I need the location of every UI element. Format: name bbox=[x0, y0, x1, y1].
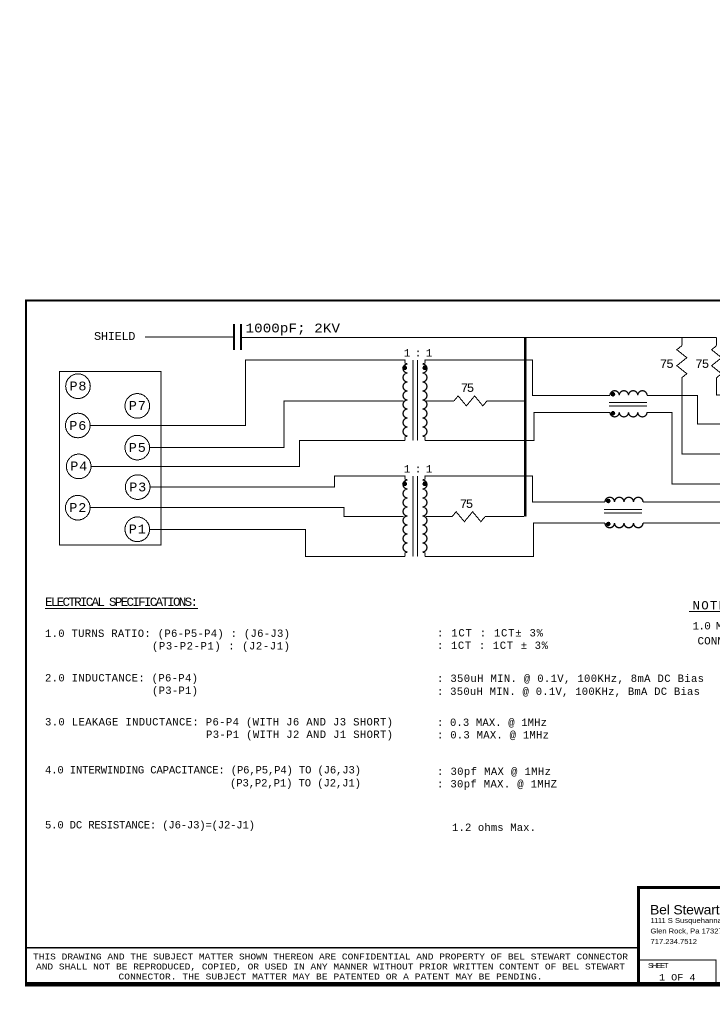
svg-text:1 : 1: 1 : 1 bbox=[404, 464, 433, 476]
svg-text:P3-P1 (WITH J2 AND J1 SHORT): P3-P1 (WITH J2 AND J1 SHORT) bbox=[206, 730, 393, 742]
svg-text:75: 75 bbox=[460, 498, 474, 512]
svg-text:SHEET: SHEET bbox=[648, 961, 669, 970]
svg-text:4.0 INTERWINDING CAPACITANCE:: 4.0 INTERWINDING CAPACITANCE: (P6,P5,P4)… bbox=[45, 766, 361, 778]
svg-text:717.234.7512: 717.234.7512 bbox=[651, 937, 697, 946]
svg-text:P8: P8 bbox=[70, 381, 87, 396]
svg-text:: 0.3 MAX. @ 1MHz: : 0.3 MAX. @ 1MHz bbox=[437, 731, 549, 743]
svg-text:3.0 LEAKAGE INDUCTANCE: P6-P4: 3.0 LEAKAGE INDUCTANCE: P6-P4 (WITH J6 A… bbox=[45, 718, 393, 730]
svg-text:1 OF 4: 1 OF 4 bbox=[659, 973, 696, 984]
svg-text:Bel Stewart Co: Bel Stewart Co bbox=[650, 902, 720, 918]
svg-text:: 1CT : 1CT ± 3%: : 1CT : 1CT ± 3% bbox=[437, 641, 549, 653]
svg-text:1.2 ohms Max.: 1.2 ohms Max. bbox=[452, 823, 536, 835]
svg-text:2.0 INDUCTANCE: (P6-P4): 2.0 INDUCTANCE: (P6-P4) bbox=[45, 674, 198, 686]
svg-text:: 1CT : 1CT± 3%: : 1CT : 1CT± 3% bbox=[437, 629, 544, 641]
svg-text:1 : 1: 1 : 1 bbox=[404, 348, 433, 360]
svg-text:1000pF; 2KV: 1000pF; 2KV bbox=[246, 322, 341, 338]
svg-text:P5: P5 bbox=[129, 442, 146, 457]
svg-text:P6: P6 bbox=[69, 420, 86, 435]
svg-text:(P3,P2,P1) TO (J2,J1): (P3,P2,P1) TO (J2,J1) bbox=[230, 779, 361, 791]
svg-text:ELECTRICAL SPECIFICATIONS:: ELECTRICAL SPECIFICATIONS: bbox=[45, 596, 198, 610]
svg-text:P3: P3 bbox=[129, 481, 146, 496]
svg-text:SHIELD: SHIELD bbox=[94, 330, 136, 344]
svg-text:(P3-P2-P1) : (J2-J1): (P3-P2-P1) : (J2-J1) bbox=[152, 642, 290, 654]
svg-text:P1: P1 bbox=[129, 524, 146, 539]
svg-text:: 30pf MAX @ 1MHz: : 30pf MAX @ 1MHz bbox=[437, 767, 551, 779]
svg-text:: 350uH MIN. @ 0.1V, 100KHz,: : 350uH MIN. @ 0.1V, 100KHz, 8mA DC Bias bbox=[437, 674, 704, 686]
svg-text:CONNECTOR: CONNECTOR bbox=[698, 636, 720, 648]
svg-text:75: 75 bbox=[660, 358, 674, 372]
svg-text:P2: P2 bbox=[69, 502, 86, 517]
svg-text:(P3-P1): (P3-P1) bbox=[152, 686, 198, 698]
svg-text:1111 S Susquehanna Trail: 1111 S Susquehanna Trail bbox=[651, 916, 720, 925]
svg-text:P7: P7 bbox=[129, 400, 146, 415]
svg-text:P4: P4 bbox=[70, 461, 87, 476]
svg-text:75: 75 bbox=[461, 382, 475, 396]
svg-text:CONNECTOR. THE SUBJECT MATTER: CONNECTOR. THE SUBJECT MATTER MAY BE PAT… bbox=[119, 971, 543, 982]
svg-text:1.0 TURNS RATIO: (P6-P5-P4) :: 1.0 TURNS RATIO: (P6-P5-P4) : (J6-J3) bbox=[45, 629, 290, 641]
svg-text:: 0.3 MAX. @ 1MHz: : 0.3 MAX. @ 1MHz bbox=[437, 718, 547, 730]
svg-text:: 350uH MIN. @ 0.1V, 100KHz,: : 350uH MIN. @ 0.1V, 100KHz, BmA DC Bias bbox=[437, 687, 700, 699]
svg-text:Glen Rock, Pa 17327: Glen Rock, Pa 17327 bbox=[651, 927, 720, 936]
svg-text:1.0 M: 1.0 M bbox=[693, 622, 720, 634]
svg-text:: 30pf MAX. @ 1MHZ: : 30pf MAX. @ 1MHZ bbox=[437, 780, 557, 792]
svg-text:75: 75 bbox=[695, 358, 709, 372]
svg-text:5.0 DC RESISTANCE: (J6-J3)=(J: 5.0 DC RESISTANCE: (J6-J3)=(J2-J1) bbox=[45, 821, 255, 833]
